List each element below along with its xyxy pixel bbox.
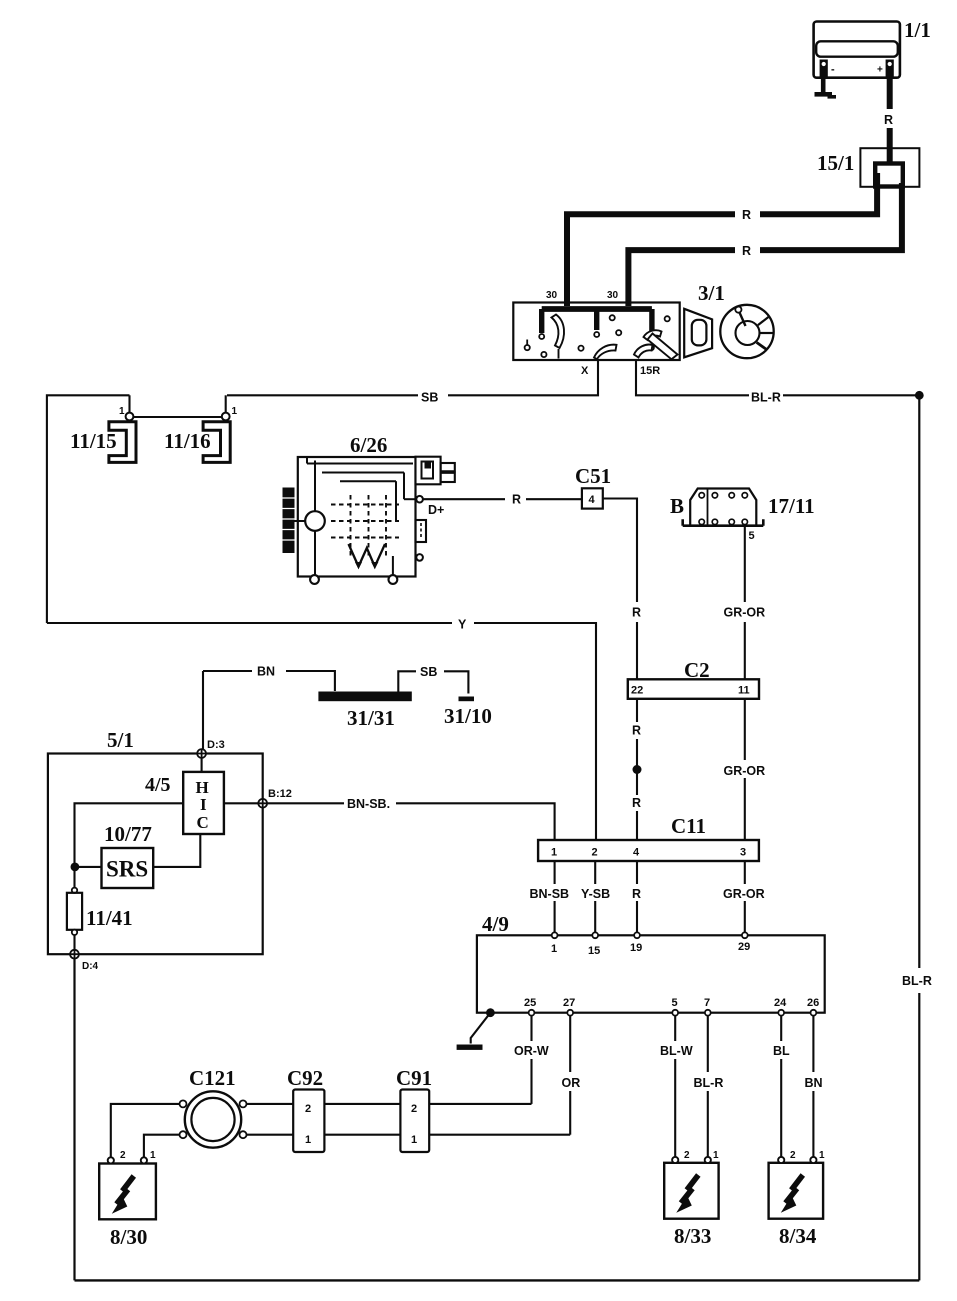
svg-text:19: 19 (630, 942, 642, 954)
sensor 8/33 (664, 1163, 718, 1219)
ground junction dot on 4/9 (486, 1008, 495, 1017)
wire C92 to C91 bottom (324, 1134, 400, 1136)
fuse element (875, 164, 903, 187)
contact X crescent (594, 345, 617, 360)
svg-text:1: 1 (150, 1150, 156, 1161)
control module box 5/1 (48, 754, 263, 955)
wire SB to ground 31/10 (398, 671, 416, 691)
svg-text:22: 22 (631, 685, 643, 697)
svg-text:2: 2 (684, 1150, 690, 1161)
svg-text:11: 11 (738, 685, 750, 697)
zigzag arrows (349, 544, 386, 567)
svg-text:BL-R: BL-R (902, 974, 932, 988)
key ring circle (720, 305, 773, 358)
svg-text:R: R (632, 796, 641, 810)
svg-text:4/9: 4/9 (482, 912, 509, 936)
svg-text:6/26: 6/26 (350, 433, 387, 457)
wire C121 to C92 top (247, 1103, 294, 1105)
wire C91 to pin27 column (429, 1134, 570, 1136)
svg-text:BL: BL (773, 1044, 790, 1058)
wire 11/41 to D:4 (73, 935, 75, 950)
svg-text:GR-OR: GR-OR (723, 887, 765, 901)
fuse box 15/1 (860, 148, 919, 187)
terminal D:4 (70, 950, 79, 959)
connector C2 (628, 679, 759, 699)
svg-text:BN-SB: BN-SB (530, 887, 570, 901)
wire BL-W pin5 (674, 1016, 676, 1041)
svg-text:I: I (200, 795, 207, 814)
svg-text:Y-SB: Y-SB (581, 887, 610, 901)
wire between connector pins (133, 416, 222, 418)
svg-text:15R: 15R (640, 365, 660, 377)
HIC unit 4/5 (183, 772, 224, 834)
svg-text:1: 1 (119, 406, 125, 417)
svg-text:R: R (632, 606, 641, 620)
wire BL pin24 (780, 1016, 782, 1041)
svg-text:31/10: 31/10 (444, 704, 492, 728)
wire SB left segment (47, 395, 130, 623)
svg-text:8/34: 8/34 (779, 1224, 817, 1248)
svg-text:R: R (512, 493, 521, 507)
lightning bolt 8/30 (122, 1176, 134, 1191)
battery negative lead to ground (821, 78, 826, 93)
wire 8/30 pin2 up to top row (111, 1104, 180, 1158)
rotor circle (305, 511, 325, 531)
svg-text:2: 2 (790, 1150, 796, 1161)
svg-text:BL-R: BL-R (694, 1076, 724, 1090)
wire C92 to C91 top (324, 1103, 400, 1105)
connector C11 (538, 840, 759, 861)
svg-text:2: 2 (120, 1150, 126, 1161)
svg-text:C11: C11 (671, 814, 706, 838)
svg-text:27: 27 (563, 997, 575, 1009)
igniter 11/41 (72, 888, 77, 893)
ground bar (4/9) (457, 1045, 483, 1050)
connector C91 (400, 1090, 429, 1153)
svg-text:C121: C121 (189, 1066, 236, 1090)
wire BL-R pin7 (707, 1016, 709, 1072)
terminal B:12 (258, 799, 267, 808)
svg-text:4: 4 (589, 494, 596, 506)
wire BN to ground bar (203, 670, 252, 672)
internal bus bar (542, 306, 652, 312)
svg-text:26: 26 (807, 997, 819, 1009)
svg-text:C92: C92 (287, 1066, 323, 1090)
junction dot BL-R corner (915, 391, 924, 400)
svg-text:31/31: 31/31 (347, 706, 395, 730)
riser to connector 11/16 (225, 395, 227, 413)
alternator 6/26 (283, 457, 455, 584)
top pins 1 15 19 29 (552, 932, 558, 938)
svg-text:29: 29 (738, 941, 750, 953)
ground 31/10 (459, 697, 475, 702)
connector 11/16 (203, 422, 230, 463)
ground bar 31/31 (318, 692, 411, 702)
wire BN pin26 (812, 1016, 814, 1072)
wire D:4 down to bottom run (73, 959, 75, 1281)
svg-text:3/1: 3/1 (698, 281, 725, 305)
svg-text:BL-W: BL-W (660, 1044, 693, 1058)
ground terminal block 17/11 (683, 489, 764, 526)
svg-text:BN: BN (805, 1076, 823, 1090)
ignition switch 3/1 (513, 290, 679, 360)
svg-text:R: R (884, 113, 893, 127)
svg-text:30: 30 (546, 290, 558, 301)
svg-text:1: 1 (411, 1134, 417, 1146)
wires below C11 (554, 861, 556, 884)
wire junction down to 11/41 (73, 867, 75, 888)
pulley (283, 488, 295, 554)
svg-text:BN: BN (257, 665, 275, 679)
svg-text:5: 5 (749, 530, 755, 542)
svg-text:B:12: B:12 (268, 788, 292, 800)
svg-text:30: 30 (607, 290, 619, 301)
wire HIC to B:12 (224, 802, 258, 804)
svg-text:GR-OR: GR-OR (724, 764, 766, 778)
svg-text:11/15: 11/15 (70, 429, 117, 453)
svg-text:D:4: D:4 (82, 961, 99, 972)
connector 11/15 (109, 422, 136, 463)
svg-text:8/30: 8/30 (110, 1225, 147, 1249)
bottom pins (529, 1010, 535, 1016)
svg-text:17/11: 17/11 (768, 494, 815, 518)
svg-text:10/77: 10/77 (104, 822, 152, 846)
wire BN from D:3 up and over (202, 671, 204, 754)
wire GR-OR from 17/11 pin 5 (744, 527, 746, 602)
svg-text:R: R (632, 724, 641, 738)
crash sensor 8/30 (99, 1164, 156, 1220)
svg-text:1: 1 (819, 1150, 825, 1161)
svg-text:11/16: 11/16 (164, 429, 211, 453)
svg-text:11/41: 11/41 (86, 906, 133, 930)
riser to connector 11/15 (128, 395, 130, 413)
svg-text:8/33: 8/33 (674, 1224, 711, 1248)
svg-text:1: 1 (551, 847, 557, 859)
lightning bolt 8/34 (791, 1175, 803, 1190)
B+ terminal block (416, 457, 441, 485)
svg-text:BN-SB.: BN-SB. (347, 797, 390, 811)
sensor 8/34 (769, 1163, 824, 1219)
wire SRS to HIC bottom (153, 834, 200, 867)
terminal D:3 (197, 749, 206, 758)
svg-text:C51: C51 (575, 464, 611, 488)
svg-text:4: 4 (633, 847, 640, 859)
connector C121 (185, 1091, 241, 1147)
wire OR-W pin25 (530, 1016, 532, 1041)
wire Y horizontal run (47, 622, 452, 624)
wire from X down to SB run (448, 360, 598, 395)
svg-text:D+: D+ (428, 503, 444, 517)
svg-text:4/5: 4/5 (145, 774, 171, 796)
key symbol trapezoid (684, 309, 712, 358)
svg-text:24: 24 (774, 997, 787, 1009)
svg-text:1/1: 1/1 (904, 18, 931, 42)
svg-text:5/1: 5/1 (107, 728, 134, 752)
svg-text:2: 2 (411, 1103, 417, 1115)
wire 8/30 pin1 up to bottom row (144, 1135, 180, 1158)
lower connector (416, 520, 427, 542)
internal wires (307, 463, 413, 465)
wire HIC left to junction (75, 803, 184, 863)
svg-text:D:3: D:3 (207, 739, 225, 751)
svg-text:5: 5 (672, 997, 678, 1009)
control unit 4/9 (477, 935, 825, 1012)
svg-text:7: 7 (704, 997, 710, 1009)
svg-text:OR-W: OR-W (514, 1044, 549, 1058)
svg-text:GR-OR: GR-OR (724, 606, 766, 620)
D+ terminal (416, 496, 423, 503)
SRS unit 10/77 (102, 848, 154, 888)
svg-text:+: + (877, 65, 883, 76)
wire from C51 to R column (603, 499, 637, 603)
wire C91 to pin25 column (429, 1103, 531, 1105)
wire R fuse right output thick (760, 183, 902, 250)
wire R from D+ to C51 (423, 498, 505, 500)
svg-text:OR: OR (562, 1076, 581, 1090)
junction dot on R wire (633, 765, 642, 774)
svg-text:SB: SB (420, 665, 437, 679)
ground lead diagonal (471, 1013, 491, 1044)
svg-text:25: 25 (524, 997, 536, 1009)
connector C92 (293, 1090, 324, 1153)
svg-text:R: R (742, 244, 751, 258)
svg-text:2: 2 (592, 847, 598, 859)
wire C121 to C92 bottom (247, 1134, 294, 1136)
svg-text:R: R (742, 208, 751, 222)
svg-text:1: 1 (232, 406, 238, 417)
wire BL-R right side down (918, 395, 920, 968)
svg-text:SB: SB (421, 391, 438, 405)
svg-text:C: C (197, 813, 209, 832)
svg-text:Y: Y (458, 618, 467, 632)
wire from 15R down to BL-R run (636, 360, 749, 395)
wire R below C2 (636, 699, 638, 722)
svg-text:C2: C2 (684, 658, 710, 682)
wire R battery positive to fuse (887, 78, 893, 110)
svg-text:X: X (581, 365, 589, 377)
bottom wire (75, 1279, 920, 1281)
wire R fuse left output thick (760, 173, 877, 214)
ground (battery) (815, 92, 833, 97)
bottom terminals (310, 575, 319, 584)
svg-text:R: R (632, 887, 641, 901)
svg-text:15/1: 15/1 (817, 151, 854, 175)
svg-text:1: 1 (713, 1150, 719, 1161)
wire GR-OR below C2 (744, 699, 746, 760)
svg-text:-: - (831, 64, 835, 76)
junction dot (71, 863, 80, 872)
wire OR pin27 (569, 1016, 571, 1072)
stator dashed grid (351, 495, 387, 559)
wire BN-SB from B:12 to C11 pin1 (267, 802, 344, 804)
svg-text:15: 15 (588, 945, 600, 957)
svg-text:1: 1 (551, 943, 557, 955)
lightning bolt 8/33 (687, 1175, 699, 1190)
svg-text:BL-R: BL-R (751, 391, 781, 405)
svg-text:2: 2 (305, 1103, 311, 1115)
svg-text:SRS: SRS (106, 857, 148, 882)
svg-text:B: B (670, 494, 684, 518)
contact 15R crescents and bar (644, 330, 662, 340)
connector C51 (582, 488, 603, 508)
svg-text:C91: C91 (396, 1066, 432, 1090)
battery 1/1 (814, 22, 900, 78)
wire junction to SRS (75, 866, 102, 868)
svg-text:3: 3 (740, 847, 746, 859)
movable contact left crescent (552, 315, 565, 349)
svg-text:1: 1 (305, 1134, 311, 1146)
contact circles (539, 334, 544, 339)
wire D:3 to HIC (201, 758, 203, 772)
